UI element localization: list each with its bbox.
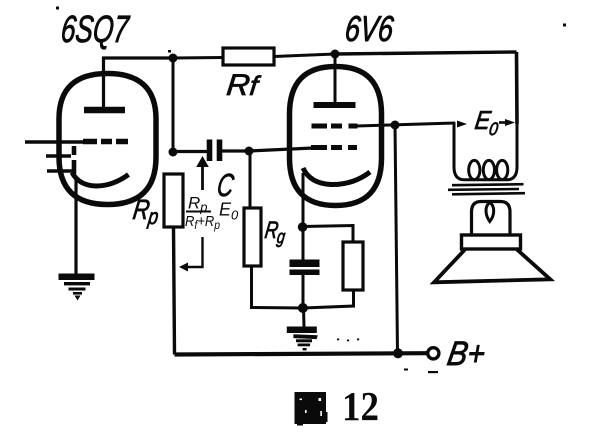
wire V2 cathode lead down to node G xyxy=(302,173,305,227)
ground G1 (V1 cathode) xyxy=(59,274,95,301)
node B junction dot (6V6 plate node) xyxy=(331,50,340,59)
speaker LS1 magnet dome xyxy=(472,202,511,236)
svg-text:6V6: 6V6 xyxy=(343,8,396,49)
wire capacitor to node D xyxy=(222,149,249,152)
capacitor C plates xyxy=(210,140,220,162)
annotation arrow up (to node C wire) xyxy=(196,156,209,190)
wire V1 plate lead up to node A xyxy=(104,58,174,110)
speaker LS1 cone xyxy=(434,250,550,283)
resistor Rg xyxy=(244,208,261,266)
svg-text:B+: B+ xyxy=(445,335,489,373)
terminal B+ circle xyxy=(428,348,439,359)
node G junction dot (cathode) xyxy=(298,222,308,232)
svg-text:Rg: Rg xyxy=(263,217,289,248)
node D junction dot xyxy=(245,147,254,156)
tube V2 6V6 envelope xyxy=(290,67,382,206)
V2 control grid (dashed) xyxy=(311,145,357,150)
resistor Rp xyxy=(164,174,183,227)
arrow E0 left (pointing right) xyxy=(457,121,467,128)
wire Rk bottom to ground node H xyxy=(303,290,354,308)
V1 diode plate lead upper xyxy=(46,154,71,157)
ground G2 (scribbled earth) xyxy=(287,327,318,351)
resistor Rk (cathode bias) xyxy=(343,242,363,290)
speaker LS1 frame xyxy=(462,235,521,249)
wire Ck down to ground node H xyxy=(302,275,305,308)
node A junction dot xyxy=(169,54,178,63)
svg-text:Rp: Rp xyxy=(131,194,162,229)
V1 diode plate lead lower xyxy=(47,169,76,172)
svg-text:E0: E0 xyxy=(219,200,239,223)
figure caption block 图 xyxy=(295,392,328,426)
wire node G down to Ck xyxy=(302,227,305,260)
wire V1 grid input lead xyxy=(25,140,84,143)
wire node A to Rf xyxy=(173,56,223,60)
node E junction dot xyxy=(391,121,400,130)
node H junction dot (ground node) xyxy=(298,303,308,313)
wire node B to top-right corner xyxy=(335,52,517,54)
resistor Rf xyxy=(223,48,274,65)
svg-text:Rf: Rf xyxy=(225,69,262,102)
wire node G to resistor Rk xyxy=(303,226,353,243)
V1 control grid (dashed) xyxy=(83,139,128,145)
V2 screen grid (dashed) xyxy=(312,124,358,129)
capacitor Ck (cathode bypass) plates xyxy=(290,260,320,276)
wire V2 screen lead to transformer (E0 wire) xyxy=(356,123,455,126)
wire Rg bottom to ground node H xyxy=(252,266,304,308)
wire node D down to Rg xyxy=(249,152,252,208)
V1 plate (anode bar) xyxy=(84,107,125,114)
wire node H to ground G2 xyxy=(302,308,306,327)
wire V1 cathode to ground xyxy=(74,177,77,274)
wire V2 plate lead to node B xyxy=(334,54,337,105)
node C junction dot xyxy=(169,148,178,157)
wire Rf to node B xyxy=(274,54,335,57)
wire Rp to bottom rail corner xyxy=(174,227,175,355)
wire node C to capacitor C xyxy=(173,150,207,153)
V1 cathode arc xyxy=(72,173,129,187)
svg-text:12: 12 xyxy=(342,383,379,429)
feedback formula Rp/(Rf+Rp) E0 xyxy=(185,194,239,233)
wire node E down to bottom rail node F xyxy=(395,125,398,354)
wire node D to V2 grid xyxy=(249,148,313,151)
wire right vertical down to transformer xyxy=(515,52,519,124)
transformer T1 core laminations xyxy=(448,184,525,194)
svg-text:Rf+Rp: Rf+Rp xyxy=(185,213,220,232)
V1 diode cathode (dashed vertical bar) xyxy=(72,146,77,174)
V2 plate bar xyxy=(314,102,356,108)
svg-text:E0: E0 xyxy=(473,105,502,139)
V2 cathode arc xyxy=(303,168,370,185)
svg-text:6SQ7: 6SQ7 xyxy=(59,9,132,51)
tube V1 6SQ7 envelope xyxy=(59,74,156,205)
transformer T1 primary winding xyxy=(454,122,517,180)
svg-text:C: C xyxy=(215,167,237,203)
wire node A down to node C xyxy=(172,58,175,152)
speaker LS1 voice-coil loop xyxy=(486,203,494,222)
arrow E0 right (pointing right) xyxy=(499,119,515,126)
scan specks xyxy=(56,7,566,374)
bottom rail wire (B+ feed) xyxy=(175,353,427,354)
formula fraction bar xyxy=(186,211,211,213)
caption white speckles xyxy=(300,398,322,416)
annotation arrow left (to Rp bottom wire) xyxy=(179,237,203,272)
node F junction dot on rail xyxy=(393,348,403,358)
